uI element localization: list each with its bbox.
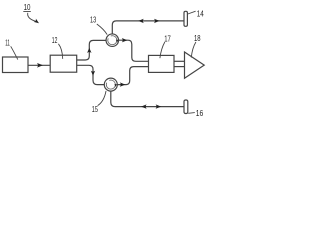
svg-text:18: 18 — [194, 33, 201, 43]
box 17 — [149, 55, 175, 72]
box 11 — [3, 57, 29, 73]
wire 12 to circulator 13 — [77, 40, 106, 60]
leader 17 — [160, 42, 165, 58]
mirror 16 — [184, 100, 188, 114]
double arrow on 13-14 wire — [138, 19, 159, 23]
leader 12 — [58, 44, 62, 59]
amplifier triangle 18 — [185, 52, 205, 78]
svg-text:15: 15 — [92, 104, 98, 114]
leader 15 — [98, 91, 106, 106]
leader 11 — [11, 46, 18, 59]
svg-text:12: 12 — [52, 35, 58, 45]
mirror 14 — [184, 11, 187, 26]
svg-text:17: 17 — [164, 33, 171, 43]
svg-text:13: 13 — [90, 15, 96, 25]
svg-text:10: 10 — [24, 2, 31, 12]
svg-text:16: 16 — [196, 108, 204, 118]
leader 14 — [188, 11, 196, 14]
wire 12 to circulator 15 — [77, 65, 105, 84]
wires 17 to 18 — [174, 60, 185, 62]
leader 13 — [97, 24, 107, 35]
svg-text:11: 11 — [5, 38, 10, 48]
leader arrow for 10 — [28, 13, 39, 23]
wire 13 to mirror 14 — [112, 21, 184, 34]
wire 13 to 17 — [119, 38, 149, 61]
wire 15 to 17 — [117, 67, 148, 87]
leader 18 — [191, 42, 196, 58]
wire 11 to 12 — [28, 63, 50, 68]
box 12 — [50, 55, 76, 72]
svg-text:14: 14 — [197, 9, 204, 19]
wire 15 to mirror 16 — [111, 91, 184, 107]
circulator 15 — [104, 78, 117, 91]
leader 16 — [188, 112, 195, 115]
double arrow on 15-16 wire — [141, 104, 161, 108]
circulator 13 — [106, 34, 119, 47]
label 10 — [23, 2, 31, 12]
